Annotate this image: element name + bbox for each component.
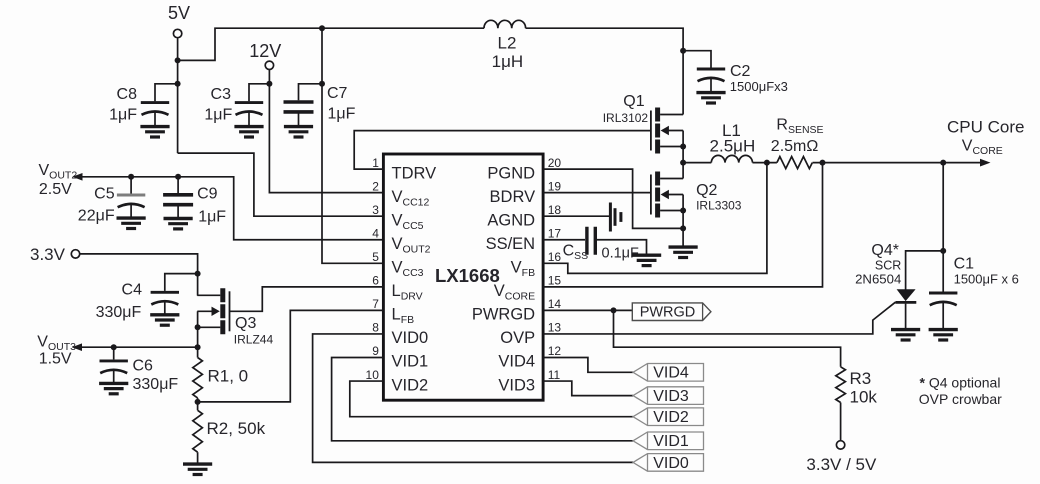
- node top-rail/VCC3 junction: [319, 25, 325, 31]
- wire Q2 drain to switch node: [682, 163, 684, 179]
- svg-text:12: 12: [548, 344, 562, 358]
- tag VID2: [633, 408, 704, 426]
- svg-text:20: 20: [548, 156, 562, 170]
- terminal 3.3V: [30, 245, 80, 264]
- svg-text:10k: 10k: [850, 388, 878, 407]
- transistor Q3 IRLZ44: [197, 288, 273, 346]
- svg-text:18: 18: [548, 203, 562, 217]
- node RSENSE right: [820, 160, 826, 166]
- wire pin15 VCORE sense: [543, 163, 822, 287]
- svg-text:SCR: SCR: [875, 259, 901, 273]
- ground AGND sideways: [610, 203, 621, 232]
- wire R1 to R2: [197, 398, 199, 410]
- transistor Q2 IRL3303: [651, 172, 742, 218]
- svg-text:VID0: VID0: [653, 455, 689, 472]
- svg-text:Q2: Q2: [696, 182, 717, 199]
- wire pin9 to VID1 tag: [332, 358, 633, 441]
- svg-text:1μH: 1μH: [492, 52, 524, 71]
- wire pin18 AGND: [543, 215, 609, 217]
- svg-text:22μF: 22μF: [78, 208, 115, 225]
- wire pin14 PWRGD: [543, 309, 632, 311]
- svg-text:3: 3: [372, 203, 379, 217]
- svg-text:C9: C9: [197, 185, 218, 202]
- svg-text:12V: 12V: [249, 41, 281, 61]
- svg-text:10: 10: [366, 368, 380, 382]
- svg-text:4: 4: [372, 226, 379, 240]
- svg-text:VID4: VID4: [653, 365, 689, 382]
- transistor Q4 SCR 2N6504: [855, 242, 916, 330]
- svg-text:3.3V / 5V: 3.3V / 5V: [806, 455, 877, 474]
- node 5V-rail junction: [175, 57, 181, 63]
- capacitor C7: [284, 84, 356, 127]
- wire pin10 to VID2 tag: [350, 381, 633, 417]
- node Q3 source: [195, 324, 201, 330]
- node VOUT2: [39, 162, 83, 198]
- svg-text:VID0: VID0: [392, 329, 429, 347]
- svg-text:VID2: VID2: [653, 409, 689, 426]
- capacitor C4: [96, 274, 196, 321]
- capacitor C5: [78, 177, 145, 225]
- transistor Q1 IRL3102: [603, 93, 683, 154]
- svg-text:SS/EN: SS/EN: [486, 235, 536, 253]
- svg-text:1: 1: [372, 156, 379, 170]
- node VOUT3 junction: [195, 344, 201, 350]
- svg-text:11: 11: [548, 368, 561, 382]
- capacitor C1: [929, 255, 1019, 329]
- ground CSS: [632, 255, 661, 265]
- inductor L2: [484, 20, 526, 71]
- capacitor C2: [683, 51, 788, 94]
- svg-text:VID1: VID1: [392, 353, 429, 371]
- pin labels left: [392, 164, 437, 394]
- wire L1 to RSENSE: [753, 162, 777, 164]
- resistor R3: [836, 367, 878, 407]
- svg-text:VID2: VID2: [392, 376, 429, 394]
- ground C6: [99, 383, 128, 393]
- terminal 12V: [249, 41, 281, 70]
- svg-text:2.5μH: 2.5μH: [710, 136, 756, 155]
- capacitor C9: [163, 177, 226, 226]
- wire 5V to pin3 VCC5: [178, 153, 384, 216]
- tag VID1: [633, 432, 704, 450]
- node R1-R2 junction: [195, 399, 201, 405]
- svg-text:5: 5: [372, 250, 379, 264]
- svg-text:2.5V: 2.5V: [39, 181, 72, 198]
- ground C4: [150, 315, 179, 325]
- svg-text:1μF: 1μF: [204, 107, 232, 124]
- wire VCORE rail with arrow: [813, 162, 982, 164]
- node CPU Core label: [947, 118, 1024, 157]
- svg-text:PWRGD: PWRGD: [640, 305, 696, 321]
- capacitor C3: [204, 84, 268, 127]
- node C1 tap on rail: [940, 160, 946, 166]
- svg-text:IRLZ44: IRLZ44: [234, 333, 274, 347]
- wire top rail right of L2 down to Q1 drain: [526, 28, 684, 114]
- ground Q2: [669, 247, 698, 257]
- tag PWRGD: [632, 303, 711, 321]
- svg-text:R3: R3: [850, 369, 872, 388]
- node C8 tap: [175, 81, 181, 87]
- node C7 tap: [319, 81, 325, 87]
- terminal 5V: [168, 3, 190, 38]
- svg-text:C5: C5: [94, 185, 115, 202]
- node PWRGD junction: [611, 307, 617, 313]
- svg-text:L2: L2: [498, 33, 517, 52]
- ground C5: [117, 218, 146, 228]
- svg-text:CPU Core: CPU Core: [947, 118, 1024, 137]
- node switch node: [680, 160, 686, 166]
- terminal 3.3V / 5V: [806, 441, 877, 474]
- ground C9: [164, 219, 193, 229]
- svg-text:6: 6: [372, 274, 379, 288]
- node VOUT3: [37, 334, 82, 368]
- svg-text:19: 19: [548, 179, 562, 193]
- node C4 tap: [195, 271, 201, 277]
- tag VID3: [633, 387, 704, 405]
- svg-text:7: 7: [372, 297, 379, 311]
- node C3 tap: [266, 81, 272, 87]
- svg-text:VID3: VID3: [498, 376, 535, 394]
- svg-text:Q1: Q1: [623, 93, 644, 110]
- svg-text:PGND: PGND: [487, 164, 535, 182]
- node C5 tap: [128, 174, 134, 180]
- svg-text:1μF: 1μF: [198, 209, 226, 226]
- svg-text:14: 14: [548, 297, 562, 311]
- wire rail to Q4 anode and C1: [942, 163, 944, 292]
- svg-text:2.5mΩ: 2.5mΩ: [771, 138, 819, 155]
- svg-text:9: 9: [372, 344, 379, 358]
- capacitor CSS 0.1uF: [563, 227, 639, 262]
- wire R1-R2 junction to pin7 LFB: [198, 310, 384, 402]
- svg-text:C1: C1: [954, 255, 975, 272]
- tag VID0: [633, 454, 704, 472]
- pin numbers right 20-11: [548, 156, 562, 382]
- svg-text:1μF: 1μF: [109, 107, 137, 124]
- resistor R1: [193, 358, 248, 398]
- wire switch node to L1: [683, 162, 711, 164]
- ground R2: [183, 464, 212, 474]
- ground C8: [140, 127, 169, 137]
- svg-text:BDRV: BDRV: [490, 188, 536, 206]
- wire pin13 OVP to SCR gate: [543, 302, 895, 334]
- wire Q1 bulk to switch node: [682, 131, 684, 163]
- resistor RSENSE: [771, 117, 824, 169]
- wire 5V to top rail and down right side to Q1 drain: [178, 28, 484, 60]
- wire top rail to pin5 VCC3: [322, 28, 383, 263]
- wire pin11 to VID3 tag: [543, 381, 633, 396]
- wire VOUT3 rail: [81, 346, 198, 348]
- svg-text:IRL3102: IRL3102: [603, 111, 649, 125]
- ground C2: [696, 93, 725, 103]
- wire pin1 TDRV to Q1 gate: [354, 131, 651, 170]
- resistor R2: [193, 410, 266, 452]
- wire pin20 PGND: [543, 169, 683, 228]
- node C9 tap: [175, 174, 181, 180]
- svg-text:OVP: OVP: [500, 329, 535, 347]
- wire Q3 bulk-source down to R1: [197, 311, 199, 357]
- node PGND junction: [680, 225, 686, 231]
- svg-text:OVP crowbar: OVP crowbar: [919, 391, 1002, 407]
- wire pin17 SS/EN to CSS: [543, 239, 585, 241]
- svg-text:VID3: VID3: [653, 388, 689, 405]
- node Q4/C1 junction: [940, 248, 946, 254]
- capacitor C8: [109, 84, 176, 127]
- svg-text:* Q4 optional: * Q4 optional: [920, 375, 1001, 391]
- op-amp U1 LX1668 IC body: [383, 154, 543, 400]
- svg-text:IRL3303: IRL3303: [696, 199, 742, 213]
- svg-text:0.1μF: 0.1μF: [602, 246, 640, 262]
- svg-text:1.5V: 1.5V: [39, 350, 72, 367]
- svg-text:C8: C8: [117, 86, 138, 103]
- ground Q4: [891, 330, 920, 340]
- wire pin12 to VID4 tag: [543, 358, 633, 373]
- node Q1 source: [680, 144, 686, 150]
- wire pin16 VFB sense: [543, 163, 767, 274]
- wire Q3 gate to pin6 LDRV: [230, 287, 384, 311]
- svg-text:R2, 50k: R2, 50k: [207, 419, 266, 438]
- node RSENSE left: [764, 160, 770, 166]
- capacitor C6: [100, 347, 179, 393]
- wire R2 to ground: [197, 452, 199, 464]
- wire 12V to pin2 VCC12: [269, 70, 383, 193]
- wire 5V stem down: [177, 38, 179, 153]
- svg-text:2N6504: 2N6504: [855, 272, 901, 287]
- svg-text:VID4: VID4: [498, 353, 535, 371]
- svg-text:Q4*: Q4*: [871, 242, 899, 259]
- svg-text:TDRV: TDRV: [392, 164, 437, 182]
- wire 3.3V to Q3 drain: [80, 254, 198, 296]
- svg-text:R1, 0: R1, 0: [208, 367, 249, 386]
- svg-text:3.3V: 3.3V: [30, 245, 66, 264]
- svg-text:C3: C3: [211, 86, 232, 103]
- wire VOUT2 rail to pin4: [82, 177, 384, 240]
- inductor L1: [710, 121, 756, 163]
- ground C7: [284, 127, 313, 137]
- wire PWRGD pull-up to R3: [614, 310, 841, 366]
- svg-text:1μF: 1μF: [328, 106, 356, 123]
- note Q4 optional OVP crowbar: [919, 375, 1002, 408]
- svg-text:13: 13: [548, 321, 562, 335]
- svg-text:1500μFx3: 1500μFx3: [730, 79, 788, 94]
- svg-text:330μF: 330μF: [96, 304, 142, 321]
- svg-text:C7: C7: [327, 85, 348, 102]
- wire pin19 BDRV to Q2 gate: [543, 192, 651, 194]
- svg-text:PWRGD: PWRGD: [472, 306, 535, 324]
- wire R3 to terminal: [840, 403, 842, 441]
- wire junction to Q4 anode: [906, 251, 944, 290]
- svg-text:LX1668: LX1668: [435, 265, 500, 286]
- ground C1: [929, 330, 958, 340]
- svg-text:1500μF x 6: 1500μF x 6: [954, 272, 1019, 287]
- svg-text:Q3: Q3: [235, 315, 256, 332]
- node C2 tap: [680, 48, 686, 54]
- tag VID4: [633, 364, 704, 382]
- svg-text:VID1: VID1: [653, 433, 689, 450]
- svg-text:C2: C2: [730, 63, 751, 80]
- svg-text:C4: C4: [122, 282, 143, 299]
- svg-text:AGND: AGND: [487, 211, 535, 229]
- wire Q2 bulk-source to ground: [682, 195, 684, 248]
- wire pin8 to VID0 tag: [313, 334, 633, 462]
- pin labels right: [472, 164, 535, 394]
- svg-text:5V: 5V: [168, 3, 190, 23]
- svg-text:330μF: 330μF: [133, 376, 179, 393]
- svg-text:15: 15: [548, 274, 562, 288]
- node C6 tap: [111, 344, 117, 350]
- node Q2 source: [680, 208, 686, 214]
- svg-text:C6: C6: [133, 358, 154, 375]
- svg-text:17: 17: [548, 226, 562, 240]
- wire CSS to ground: [597, 240, 647, 255]
- svg-text:2: 2: [372, 179, 379, 193]
- pin numbers left 1-10: [366, 156, 380, 382]
- ground C3: [234, 127, 263, 137]
- svg-text:16: 16: [548, 250, 562, 264]
- svg-text:8: 8: [372, 321, 379, 335]
